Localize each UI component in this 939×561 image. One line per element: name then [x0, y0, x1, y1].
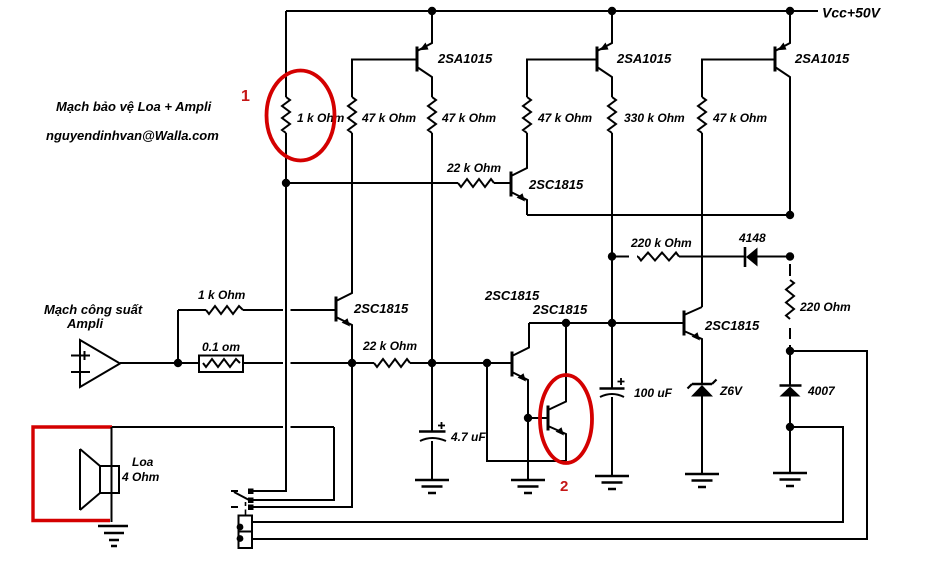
wire row 256 left part: [612, 256, 744, 258]
svg-text:nguyendinhvan@Walla.com: nguyendinhvan@Walla.com: [46, 128, 219, 143]
svg-text:47 k Ohm: 47 k Ohm: [361, 111, 416, 125]
svg-text:Mạch công suất: Mạch công suất: [44, 302, 143, 317]
transistor Q6 2SA1015: [597, 11, 612, 97]
relay coil: [239, 516, 253, 549]
svg-text:Vcc+50V: Vcc+50V: [822, 5, 882, 21]
red rectangle speaker highlight: [33, 427, 112, 521]
wire col F dashed segment upper: [789, 264, 791, 276]
svg-text:330 k Ohm: 330 k Ohm: [624, 111, 685, 125]
svg-text:2SA1015: 2SA1015: [437, 51, 493, 66]
diode D1 4148: [745, 247, 790, 267]
node junction row 363 col 487: [483, 359, 491, 367]
relay coil terminal dot lower: [237, 535, 244, 542]
svg-text:4007: 4007: [807, 384, 836, 398]
node junction top rail col C: [428, 7, 436, 15]
transistor Q3 2SC1815: [511, 134, 527, 215]
wire Q5 emitter node to ground: [527, 418, 529, 480]
wire row 215: [527, 214, 790, 216]
wire col 47k3 top: [527, 60, 597, 98]
transistor Q9 2SC1815: [528, 323, 566, 461]
svg-text:Ampli: Ampli: [66, 316, 104, 331]
node junction row 256 col F: [786, 252, 794, 260]
transistor Q1 2SA1015: [417, 11, 432, 97]
svg-text:2SC1815: 2SC1815: [353, 301, 409, 316]
ground under zener: [685, 474, 719, 487]
wire row 363: [178, 362, 512, 364]
ground under speaker: [98, 526, 128, 546]
svg-text:0.1 om: 0.1 om: [202, 340, 240, 354]
resistor R9 220 Ohm: [786, 280, 794, 319]
node junction row 363 col C: [428, 359, 436, 367]
resistor R2 47 k Ohm: [348, 97, 356, 133]
svg-text:Z6V: Z6V: [719, 384, 743, 398]
node junction col F row 427: [786, 423, 794, 431]
wire col D down: [611, 133, 613, 388]
node junction col F row 351: [786, 347, 794, 355]
red ellipse 1: [267, 71, 335, 161]
resistor R7 22 k Ohm: [458, 179, 494, 187]
svg-text:2: 2: [560, 478, 568, 495]
svg-text:220 Ohm: 220 Ohm: [799, 300, 851, 314]
svg-text:2SC1815: 2SC1815: [528, 177, 584, 192]
svg-text:22 k Ohm: 22 k Ohm: [446, 161, 501, 175]
transistor Q4 2SC1815: [336, 133, 352, 363]
resistor R8 220 k Ohm: [638, 253, 679, 261]
ground under C2: [595, 476, 629, 489]
wire col F dashed segment lower: [789, 328, 791, 339]
wire row 183 to 22k and Q3 base: [286, 182, 511, 184]
wire col B 47k top to Q1 base: [352, 60, 417, 98]
wire col 47k3 bottom: [526, 133, 528, 168]
svg-text:2SC1815: 2SC1815: [484, 288, 540, 303]
resistor R5 330 k Ohm: [608, 97, 616, 133]
wire corner 1k row down to output node: [177, 310, 179, 363]
wire loop inner right: [252, 427, 843, 522]
node junction row 215 col F: [786, 211, 794, 219]
wire speaker row 427 to relay: [112, 427, 334, 500]
wire col B down to Q2 collector: [351, 133, 353, 293]
svg-text:2SC1815: 2SC1815: [704, 318, 760, 333]
node junction col D row 323: [608, 319, 616, 327]
relay switch contacts: [248, 489, 254, 511]
wire col F to 4007: [789, 345, 791, 385]
svg-text:47 k Ohm: 47 k Ohm: [441, 111, 496, 125]
svg-text:2SA1015: 2SA1015: [616, 51, 672, 66]
resistor R10 1 k Ohm: [206, 306, 243, 314]
transistor Q5 2SC1815: [512, 323, 529, 418]
diode D2 4007: [780, 386, 802, 397]
wire Vcc top rail: [286, 10, 818, 12]
wire amp output: [120, 362, 178, 364]
wire col C down to row 363: [431, 133, 433, 363]
svg-text:2SA1015: 2SA1015: [794, 51, 850, 66]
transistor Q7 2SA1015: [775, 11, 790, 215]
svg-text:Mạch bảo vệ Loa + Ampli: Mạch bảo vệ Loa + Ampli: [56, 99, 212, 114]
resistor R12 22 k Ohm: [374, 359, 410, 367]
resistor R6 47 k Ohm: [698, 97, 706, 133]
wire zener to ground: [701, 396, 703, 474]
wire col F to ground: [789, 396, 791, 473]
wire left main vertical col A: [251, 11, 286, 491]
speaker Loa 4 Ohm: [80, 427, 119, 522]
svg-text:47 k Ohm: 47 k Ohm: [712, 111, 767, 125]
wire col E down to Q8 collector: [701, 133, 703, 307]
svg-text:220 k Ohm: 220 k Ohm: [630, 236, 692, 250]
resistor R3 47 k Ohm col C: [428, 97, 436, 133]
wire loop outer right: [252, 351, 867, 539]
resistor R11 0.1 om boxed: [199, 356, 243, 373]
resistor R4 47 k Ohm: [523, 97, 531, 133]
transistor Q8 2SC1815: [684, 307, 702, 385]
amplifier triangle: [71, 340, 120, 387]
node junction top rail col F: [786, 7, 794, 15]
ground under Q5: [511, 480, 545, 493]
svg-text:Loa: Loa: [132, 455, 154, 469]
node junction col A row 183: [282, 179, 290, 187]
svg-text:100 uF: 100 uF: [634, 386, 673, 400]
node junction Q5 emitter Q9 base: [524, 414, 532, 422]
capacitor C1 4.7 uF: [419, 363, 446, 480]
svg-text:4.7 uF: 4.7 uF: [450, 430, 486, 444]
node junction amp output: [174, 359, 182, 367]
svg-text:22 k Ohm: 22 k Ohm: [362, 339, 417, 353]
wire Q9 emitter feedback to row 363: [487, 363, 566, 461]
ground under C1: [415, 480, 449, 493]
ground under 4007: [773, 473, 807, 486]
svg-text:1 k Ohm: 1 k Ohm: [297, 111, 345, 125]
svg-text:47 k Ohm: 47 k Ohm: [537, 111, 592, 125]
zener D3 Z6V: [688, 380, 717, 397]
svg-text:2SC1815: 2SC1815: [532, 302, 588, 317]
relay switch blade: [231, 491, 250, 516]
svg-text:4 Ohm: 4 Ohm: [121, 470, 160, 484]
svg-text:1 k Ohm: 1 k Ohm: [198, 288, 246, 302]
wire row 310 from corner to Q4 base: [178, 309, 336, 311]
svg-text:1: 1: [241, 88, 250, 105]
wire col E 47k top to Q7 base: [702, 60, 775, 98]
relay coil terminal dot upper: [237, 524, 244, 531]
capacitor C2 100 uF: [600, 323, 625, 476]
svg-text:4148: 4148: [738, 231, 766, 245]
resistor R1 1 k Ohm: [282, 97, 290, 133]
node junction col D row 256: [608, 252, 616, 260]
red ellipse 2: [540, 375, 592, 463]
node junction top rail col D: [608, 7, 616, 15]
wire row 323: [529, 322, 684, 324]
wire col B sense down to relay: [251, 363, 352, 507]
node junction row 363 col B: [348, 359, 356, 367]
node junction row 323 Q5 collector: [562, 319, 570, 327]
